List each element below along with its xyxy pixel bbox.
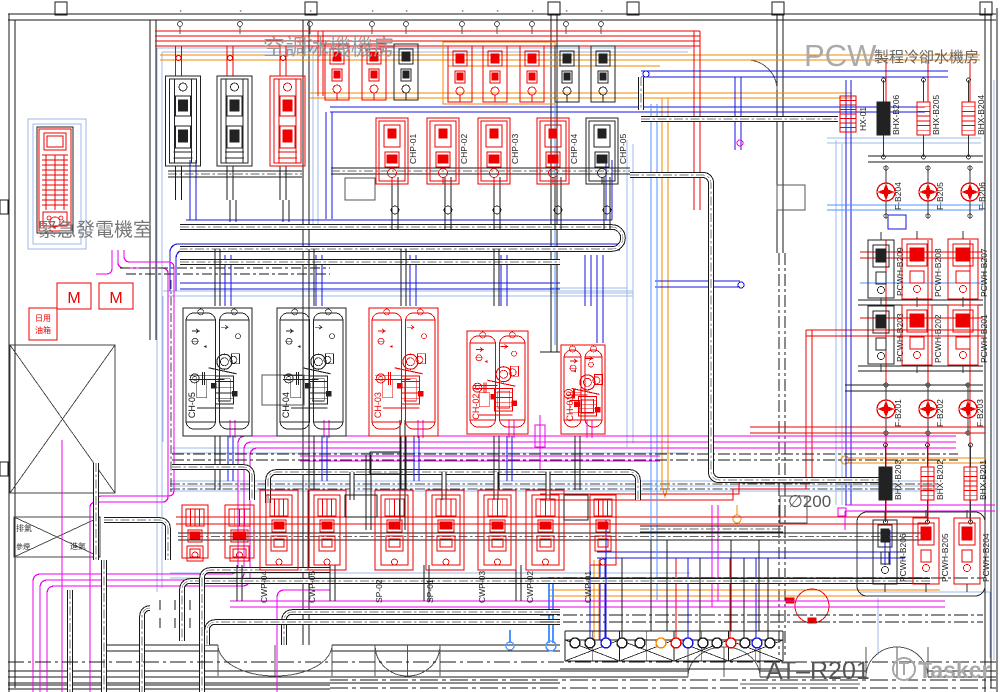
svg-text:•: • xyxy=(531,10,537,12)
svg-text:CHP-03: CHP-03 xyxy=(510,133,520,164)
svg-text:進氣: 進氣 xyxy=(70,541,86,551)
svg-text:F-B206: F-B206 xyxy=(977,182,987,210)
svg-text:空調冰機機房: 空調冰機機房 xyxy=(263,35,395,60)
svg-text:∅200: ∅200 xyxy=(788,492,831,511)
svg-text:排氣: 排氣 xyxy=(16,523,32,533)
svg-text:CWP-01: CWP-01 xyxy=(583,571,593,603)
svg-text:緊急發電機室: 緊急發電機室 xyxy=(38,219,152,241)
svg-text:•: • xyxy=(461,10,467,12)
svg-text:CWP-03: CWP-03 xyxy=(477,571,487,603)
svg-text:F-B201: F-B201 xyxy=(893,399,903,427)
svg-text:F-B205: F-B205 xyxy=(935,182,945,210)
svg-text:•: • xyxy=(405,10,411,12)
svg-text:•: • xyxy=(239,10,245,12)
svg-text:CH-03: CH-03 xyxy=(373,392,383,418)
svg-text:PCWH-B209: PCWH-B209 xyxy=(895,247,905,296)
svg-text:CH-05: CH-05 xyxy=(187,392,197,418)
svg-text:CHP-05: CHP-05 xyxy=(618,133,628,164)
svg-text:油箱: 油箱 xyxy=(35,325,51,335)
svg-text:BHX-B206: BHX-B206 xyxy=(891,95,901,135)
svg-text:日用: 日用 xyxy=(35,314,51,323)
svg-text:PCWH-B203: PCWH-B203 xyxy=(895,313,905,362)
svg-text:PCWH-B208: PCWH-B208 xyxy=(933,248,943,297)
svg-text:▲: ▲ xyxy=(572,369,578,374)
svg-text:PCWH-B207: PCWH-B207 xyxy=(979,248,989,297)
svg-text:•: • xyxy=(496,10,502,12)
svg-text:▲: ▲ xyxy=(388,344,394,349)
svg-text:▲: ▲ xyxy=(202,344,208,349)
svg-text:CHP-02: CHP-02 xyxy=(459,133,469,164)
svg-text:CWP-04: CWP-04 xyxy=(259,571,269,603)
svg-text:•: • xyxy=(371,10,377,12)
svg-text:BHX-B203: BHX-B203 xyxy=(893,460,903,500)
svg-text:Tasker: Tasker xyxy=(918,657,991,683)
svg-text:M: M xyxy=(67,290,80,307)
svg-text:PCWH-B205: PCWH-B205 xyxy=(940,533,950,582)
svg-text:PCWH-B202: PCWH-B202 xyxy=(933,314,943,363)
svg-text:參煙: 參煙 xyxy=(16,542,30,551)
svg-text:CH-01: CH-01 xyxy=(565,396,575,422)
svg-text:SP-01: SP-01 xyxy=(425,579,435,603)
svg-text:▲: ▲ xyxy=(296,344,302,349)
svg-text:CWP-02: CWP-02 xyxy=(525,571,535,603)
svg-text:•: • xyxy=(600,10,606,12)
svg-text:HX-01: HX-01 xyxy=(858,107,868,131)
svg-text:•: • xyxy=(565,10,571,12)
svg-text:SP-02: SP-02 xyxy=(374,579,384,603)
svg-text:製程冷卻水機房: 製程冷卻水機房 xyxy=(874,49,979,66)
svg-text:F-B202: F-B202 xyxy=(935,399,945,427)
svg-text:CHP-04: CHP-04 xyxy=(569,133,579,164)
svg-text:BHX-B201: BHX-B201 xyxy=(978,460,988,500)
svg-text:▲: ▲ xyxy=(484,359,490,364)
svg-text:BHX-B204: BHX-B204 xyxy=(976,95,986,135)
svg-text:PCW: PCW xyxy=(804,38,877,73)
svg-text:PCWH-B204: PCWH-B204 xyxy=(981,533,991,582)
svg-text:CH-02: CH-02 xyxy=(471,394,481,420)
svg-text:PCWH-B206: PCWH-B206 xyxy=(898,533,908,582)
svg-text:CHP-01: CHP-01 xyxy=(408,133,418,164)
svg-text:•: • xyxy=(179,10,185,12)
svg-text:CH-04: CH-04 xyxy=(281,392,291,418)
svg-text:F-B203: F-B203 xyxy=(975,399,985,427)
svg-text:BHX-B205: BHX-B205 xyxy=(931,95,941,135)
svg-text:•: • xyxy=(309,10,315,12)
svg-text:CWP-05: CWP-05 xyxy=(307,571,317,603)
svg-text:F-B204: F-B204 xyxy=(893,182,903,210)
svg-text:M: M xyxy=(109,290,122,307)
svg-text:PCWH-B201: PCWH-B201 xyxy=(979,314,989,363)
svg-text:AT–R201: AT–R201 xyxy=(766,657,870,685)
svg-text:BHX-B202: BHX-B202 xyxy=(935,460,945,500)
